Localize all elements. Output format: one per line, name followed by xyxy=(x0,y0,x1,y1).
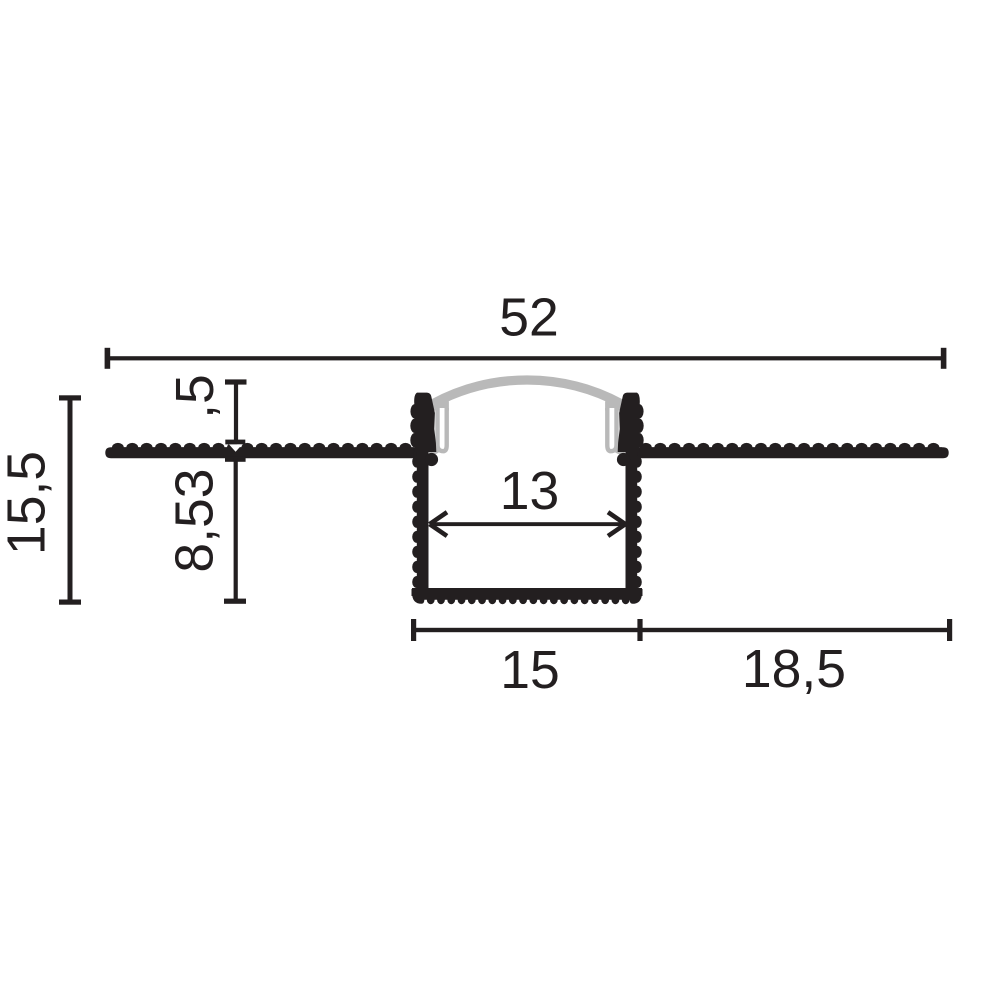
dimension 15,5 top tick xyxy=(59,395,81,400)
dimension 8,53 line xyxy=(234,458,238,601)
dimension 8,53 top tick xyxy=(225,457,246,462)
dimension ,5 top tick xyxy=(225,379,247,384)
dimension 15,5 line xyxy=(68,398,73,603)
profile right flange body xyxy=(634,447,949,458)
dimension 15,5 bottom tick xyxy=(59,600,81,605)
diffuser left ledge xyxy=(433,401,449,410)
dimension 8,53 bottom tick xyxy=(224,599,246,604)
profile left wall top clip xyxy=(410,393,436,452)
svg-text:15: 15 xyxy=(500,641,560,700)
dimension 13 right arrowhead xyxy=(608,512,625,536)
dimension ,5 lower bar xyxy=(225,440,245,445)
diffuser right leg hook xyxy=(616,450,624,452)
bottom dimension line xyxy=(414,628,950,632)
diffuser right leg xyxy=(607,408,616,451)
svg-text:,5: ,5 xyxy=(166,374,225,419)
svg-text:18,5: 18,5 xyxy=(742,640,846,699)
diffuser arc cover xyxy=(432,380,622,404)
profile left retaining bead xyxy=(425,453,438,466)
svg-text:13: 13 xyxy=(500,462,560,521)
profile right retaining bead xyxy=(617,453,630,466)
profile left flange body xyxy=(105,447,420,458)
svg-text:52: 52 xyxy=(499,288,559,347)
profile left wall xyxy=(412,448,429,596)
dimension ,5 white arrowhead xyxy=(229,444,242,451)
diffuser left leg xyxy=(438,408,447,451)
dimension ,5 line xyxy=(234,381,238,443)
dimension 52 left tick xyxy=(105,348,111,369)
profile left flange knurled top xyxy=(112,443,414,458)
dimension 52 right tick xyxy=(941,348,947,369)
dimension 13 left arrowhead xyxy=(430,512,447,536)
svg-text:15,5: 15,5 xyxy=(0,451,57,555)
bottom dimension right tick xyxy=(947,619,952,641)
dimension 13 arrow shaft xyxy=(431,522,624,526)
diffuser right ledge xyxy=(605,401,621,410)
profile right flange knurled top xyxy=(640,443,942,458)
profile right wall top clip xyxy=(618,393,644,452)
profile right wall xyxy=(626,448,643,596)
dimension 52 line xyxy=(107,356,944,360)
diffuser left leg hook xyxy=(431,450,439,452)
profile bottom plate xyxy=(412,588,642,604)
bottom dimension left tick xyxy=(411,619,416,641)
svg-text:8,53: 8,53 xyxy=(166,468,225,572)
bottom dimension middle tick xyxy=(637,619,642,641)
